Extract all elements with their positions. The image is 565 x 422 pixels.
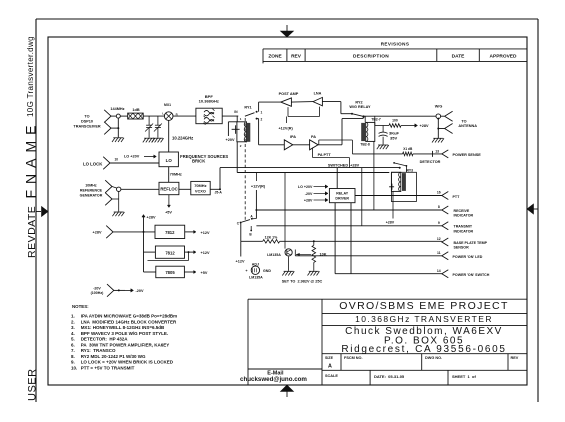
svg-text:7805: 7805 (165, 270, 175, 275)
svg-text:LNA MODIFIED 14GHz BLOCK CONV: LNA MODIFIED 14GHz BLOCK CONVERTER (81, 319, 177, 324)
svg-text:REFLOC: REFLOC (160, 187, 177, 192)
svg-text:GENERATOR: GENERATOR (80, 193, 103, 197)
svg-text:(100Hz): (100Hz) (91, 291, 105, 295)
svg-text:X1 dB: X1 dB (403, 147, 413, 151)
svg-text:RY2: RY2 (355, 100, 362, 104)
svg-text:TRANSCEIVER: TRANSCEIVER (73, 124, 100, 128)
svg-text:+28V: +28V (304, 198, 313, 202)
svg-text:SHEET 1 of: SHEET 1 of (452, 374, 476, 379)
svg-text:OVRO/SBMS EME PROJECT: OVRO/SBMS EME PROJECT (339, 300, 509, 312)
svg-text:70MHz: 70MHz (170, 172, 182, 176)
svg-text:INDICATOR: INDICATOR (454, 214, 474, 218)
svg-text:TO: TO (461, 119, 466, 123)
svg-text:1.: 1. (71, 314, 75, 319)
svg-text:10G Transverter.dwg: 10G Transverter.dwg (26, 36, 35, 117)
svg-text:13: 13 (435, 150, 439, 154)
svg-text:16: 16 (437, 191, 441, 195)
svg-text:DRIVER: DRIVER (335, 196, 349, 200)
svg-text:APPROVED: APPROVED (490, 54, 517, 60)
svg-text:+12V: +12V (201, 251, 210, 255)
svg-text:BRICK: BRICK (192, 159, 205, 164)
svg-text:+28V: +28V (147, 216, 156, 220)
svg-text:14: 14 (437, 269, 441, 273)
svg-text:35V: 35V (390, 136, 397, 141)
svg-text:FSCM NO.: FSCM NO. (344, 356, 363, 360)
svg-text:1: 1 (261, 110, 263, 114)
svg-text:DETECTOR: HP 432A: DETECTOR: HP 432A (81, 337, 129, 342)
svg-text:TRANSMIT: TRANSMIT (454, 225, 473, 229)
svg-text:POST AMP: POST AMP (279, 92, 299, 96)
svg-text:USER: USER (26, 368, 38, 401)
svg-text:RY3: RY3 (407, 169, 414, 173)
svg-text:LNA: LNA (314, 91, 322, 95)
svg-text:6.: 6. (71, 342, 75, 347)
svg-text:+12V(R): +12V(R) (278, 126, 293, 130)
svg-text:DATE: DATE (452, 54, 466, 60)
svg-text:RY1: RY1 (244, 106, 251, 110)
svg-text:100: 100 (392, 119, 398, 123)
svg-text:12: 12 (437, 237, 441, 241)
svg-text:+5V: +5V (165, 211, 172, 215)
svg-text:10.368GHz TRANSVERTER: 10.368GHz TRANSVERTER (355, 314, 493, 324)
svg-text:10.: 10. (71, 365, 77, 370)
svg-text:3.: 3. (71, 325, 75, 330)
svg-text:POWER 'ON' SWITCH: POWER 'ON' SWITCH (453, 273, 490, 277)
svg-text:REV: REV (291, 54, 302, 60)
svg-text:RY2 MDL 20-1242 P1 W/30 WG: RY2 MDL 20-1242 P1 W/30 WG (81, 354, 146, 359)
svg-text:LO LOCK = +20V WHEN BRICK IS L: LO LOCK = +20V WHEN BRICK IS LOCKED (81, 360, 174, 365)
svg-text:10MHz: 10MHz (85, 183, 97, 187)
svg-text:REVDATE: REVDATE (26, 206, 38, 258)
svg-text:ANTENNA: ANTENNA (458, 124, 477, 128)
svg-text:TB2-7: TB2-7 (371, 118, 381, 122)
svg-text:L: L (162, 111, 164, 115)
svg-text:7812: 7812 (165, 230, 175, 235)
svg-text:SWITCHED +28V: SWITCHED +28V (328, 163, 360, 167)
svg-text:LO LOCK: LO LOCK (83, 161, 103, 166)
svg-text:GND: GND (263, 269, 271, 273)
svg-text:LM135A: LM135A (249, 276, 263, 280)
svg-text:BPF WAVECV 3 POLE W/G POST STY: BPF WAVECV 3 POLE W/G POST STYLE. (81, 331, 168, 336)
svg-text:10.224GHz: 10.224GHz (172, 135, 193, 140)
svg-text:RECEIVE: RECEIVE (454, 209, 470, 213)
svg-text:2: 2 (261, 118, 263, 122)
svg-text:10.368GHz: 10.368GHz (199, 99, 219, 104)
svg-text:DESCRIPTION: DESCRIPTION (353, 54, 389, 60)
svg-text:2.: 2. (71, 319, 75, 324)
svg-text:NOTES:: NOTES: (72, 304, 89, 309)
svg-text:BASE PLATE TEMP: BASE PLATE TEMP (454, 241, 488, 245)
svg-text:TO: TO (84, 114, 89, 118)
svg-text:IPA AYDIN MICROWAVE G=38dB Po=: IPA AYDIN MICROWAVE G=38dB Po=+28dBm (81, 314, 177, 319)
svg-text:+28V: +28V (386, 220, 395, 224)
svg-text:POWER 'ON' LED: POWER 'ON' LED (453, 255, 483, 259)
svg-text:A: A (328, 364, 332, 370)
svg-text:W/G: W/G (435, 105, 443, 109)
svg-text:REV: REV (511, 356, 519, 360)
svg-text:11: 11 (437, 251, 441, 255)
svg-text:POWER SENSE: POWER SENSE (453, 153, 482, 157)
svg-text:REFERENCE: REFERENCE (80, 188, 103, 192)
svg-text:REVISIONS: REVISIONS (381, 42, 410, 47)
svg-text:PA 30W TNT POWER AMPLIFIER, K: PA 30W TNT POWER AMPLIFIER, KA6EY (81, 342, 170, 347)
svg-text:-20V: -20V (136, 289, 144, 293)
svg-text:5.: 5. (71, 337, 75, 342)
svg-text:Ridgecrest, CA 93556-0605: Ridgecrest, CA 93556-0605 (341, 344, 506, 355)
svg-text:VCXO: VCXO (195, 188, 206, 193)
svg-text:LO +20V: LO +20V (298, 185, 313, 189)
svg-text:RY1: TRANSCO: RY1: TRANSCO (81, 348, 116, 353)
svg-text:PTT = +5V TO TRANSMIT: PTT = +5V TO TRANSMIT (81, 365, 135, 370)
svg-text:DATE: 05-31-05: DATE: 05-31-05 (374, 374, 405, 379)
svg-text:1dB: 1dB (132, 108, 139, 112)
svg-text:LO +20V: LO +20V (124, 155, 140, 159)
svg-text:FNAME: FNAME (22, 120, 38, 199)
svg-text:8: 8 (438, 205, 440, 209)
svg-text:9.: 9. (71, 360, 75, 365)
svg-text:PA PTT: PA PTT (318, 153, 332, 157)
svg-text:10: 10 (115, 158, 119, 162)
svg-text:MX1: MX1 (164, 103, 171, 107)
svg-text:chuckswed@juno.com: chuckswed@juno.com (240, 376, 307, 383)
svg-text:SET TO 2.982V @ 25C: SET TO 2.982V @ 25C (282, 279, 323, 283)
svg-text:TB2-8: TB2-8 (360, 143, 370, 147)
svg-text:MX1: HONEYWELL 8-12GHz INS=6.5: MX1: HONEYWELL 8-12GHz INS=6.5dB (81, 325, 165, 330)
svg-text:7.: 7. (71, 348, 75, 353)
svg-text:DWG NO.: DWG NO. (425, 356, 442, 360)
svg-text:+12V: +12V (201, 231, 210, 235)
svg-text:LM135A: LM135A (267, 253, 281, 257)
svg-text:144MHz: 144MHz (110, 107, 124, 111)
svg-text:SENSOR: SENSOR (454, 246, 470, 250)
svg-text:-20V: -20V (93, 287, 101, 291)
svg-text:J5-A: J5-A (215, 191, 223, 195)
svg-text:LO: LO (166, 158, 173, 163)
svg-text:9: 9 (438, 221, 440, 225)
svg-text:SCALE: SCALE (325, 374, 338, 378)
svg-text:4.: 4. (71, 331, 75, 336)
svg-text:8.: 8. (71, 354, 75, 359)
svg-text:W/G RELAY: W/G RELAY (349, 105, 371, 109)
svg-text:-20V: -20V (305, 192, 313, 196)
svg-text:+5V: +5V (201, 271, 208, 275)
svg-text:PTT: PTT (453, 195, 461, 199)
svg-text:DSP10: DSP10 (81, 119, 93, 123)
svg-text:IPA: IPA (290, 135, 296, 139)
svg-text:PA: PA (311, 135, 316, 139)
svg-text:DETECTOR: DETECTOR (420, 160, 441, 164)
svg-text:+28V: +28V (420, 124, 429, 128)
svg-text:+28V: +28V (93, 230, 102, 234)
svg-text:RELAY: RELAY (336, 191, 348, 195)
svg-text:+12V(R): +12V(R) (251, 184, 266, 188)
svg-text:7812: 7812 (165, 251, 175, 256)
svg-text:INDICATOR: INDICATOR (454, 229, 474, 233)
svg-text:+12V: +12V (236, 259, 245, 263)
svg-text:+20V: +20V (226, 138, 235, 142)
svg-text:12K 1%: 12K 1% (265, 236, 279, 240)
svg-text:SIZE: SIZE (325, 356, 334, 360)
svg-text:ZONE: ZONE (268, 54, 282, 60)
